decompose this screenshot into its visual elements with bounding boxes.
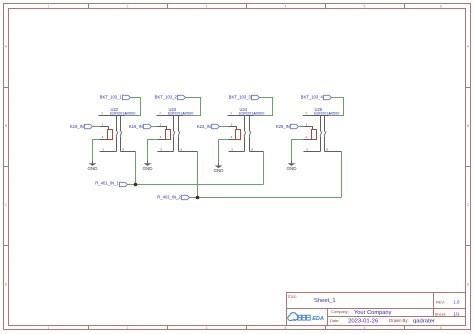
relay U22 EDR201A0500 bbox=[99, 107, 136, 152]
wire relay U23 pin 4 to GND bbox=[148, 140, 158, 162]
svg-text:3: 3 bbox=[231, 148, 233, 152]
wire relay U24 pin 8 down to net R_401_IN bbox=[263, 152, 265, 185]
svg-text:BKT_103_4: BKT_103_4 bbox=[301, 94, 324, 99]
svg-text:1.0: 1.0 bbox=[453, 300, 460, 305]
frame zone numbers top bbox=[48, 4, 443, 8]
svg-text:8: 8 bbox=[326, 148, 328, 152]
svg-text:Sheet_1: Sheet_1 bbox=[314, 298, 336, 304]
svg-text:1/1: 1/1 bbox=[453, 311, 460, 316]
net label BKT_103_2 bbox=[155, 94, 186, 99]
svg-text:D: D bbox=[467, 282, 470, 286]
svg-text:EDR201A0500: EDR201A0500 bbox=[239, 111, 264, 115]
junction on R_401_IN_1 at relay U22 bbox=[134, 183, 138, 187]
net label BKT_103_3 bbox=[229, 94, 260, 99]
wire from BKT_103_1 to relay pin 8 top bbox=[125, 98, 141, 116]
svg-text:BKT_103_3: BKT_103_3 bbox=[229, 94, 252, 99]
svg-text:GND: GND bbox=[143, 166, 154, 171]
svg-text:Date:: Date: bbox=[330, 318, 339, 323]
ground GND1 bbox=[88, 161, 99, 171]
svg-text:3: 3 bbox=[206, 4, 208, 8]
relay U23 EDR201A0500 bbox=[157, 107, 198, 152]
wire net R_401_IN_2 bbox=[190, 197, 342, 199]
net label K19_IN bbox=[70, 124, 93, 129]
logo text 嘉立创EDA bbox=[298, 315, 324, 322]
wire relay U25 pin 8 down to net R_401_IN bbox=[341, 152, 343, 198]
svg-text:BKT_103_1: BKT_103_1 bbox=[100, 94, 123, 99]
net label BKT_103_1 bbox=[100, 94, 131, 99]
svg-text:4: 4 bbox=[160, 135, 162, 139]
svg-text:1: 1 bbox=[48, 4, 50, 8]
svg-text:2: 2 bbox=[127, 4, 129, 8]
svg-text:K19_IN: K19_IN bbox=[70, 124, 84, 129]
svg-text:EDA: EDA bbox=[312, 316, 324, 322]
svg-text:K16_IN: K16_IN bbox=[129, 124, 143, 129]
logo cloud icon bbox=[288, 313, 299, 321]
svg-text:B: B bbox=[467, 124, 470, 128]
svg-text:D: D bbox=[5, 282, 8, 286]
net label K22_IN bbox=[197, 124, 220, 129]
frame zone letters right bbox=[467, 45, 470, 287]
svg-text:REV:: REV: bbox=[436, 300, 445, 305]
wire from K19_IN to relay pin 2 bbox=[93, 126, 100, 128]
svg-text:R_401_IN_1: R_401_IN_1 bbox=[95, 181, 119, 186]
svg-text:1: 1 bbox=[48, 326, 50, 330]
svg-text:1: 1 bbox=[159, 111, 161, 115]
net label R_401_IN_1 bbox=[95, 181, 127, 187]
svg-text:3: 3 bbox=[206, 326, 208, 330]
svg-text:3: 3 bbox=[102, 148, 104, 152]
svg-text:Company:: Company: bbox=[331, 309, 349, 314]
svg-text:EDR201A0500: EDR201A0500 bbox=[110, 111, 135, 115]
svg-text:A: A bbox=[467, 45, 470, 49]
svg-text:R_401_IN_2: R_401_IN_2 bbox=[157, 195, 181, 200]
svg-text:8: 8 bbox=[122, 148, 124, 152]
svg-text:GND: GND bbox=[88, 166, 99, 171]
svg-text:A: A bbox=[5, 45, 8, 49]
wire from K25_IN to relay pin 2 bbox=[299, 126, 304, 128]
svg-text:B: B bbox=[5, 124, 8, 128]
wire relay U24 pin 4 to GND bbox=[219, 140, 229, 164]
net label K25_IN bbox=[276, 124, 299, 129]
relay U24 EDR201A0500 bbox=[228, 107, 265, 152]
relay U25 EDR201A0500 bbox=[303, 107, 342, 152]
svg-text:C: C bbox=[5, 203, 8, 207]
svg-text:1: 1 bbox=[230, 111, 232, 115]
frame zone letters left bbox=[5, 45, 8, 287]
svg-text:K22_IN: K22_IN bbox=[197, 124, 211, 129]
svg-text:4: 4 bbox=[231, 135, 233, 139]
junction on R_401_IN_2 at relay U23 bbox=[196, 196, 200, 200]
svg-text:8: 8 bbox=[180, 148, 182, 152]
wire relay U23 pin 8 down to net R_401_IN bbox=[197, 152, 199, 198]
svg-text:1: 1 bbox=[305, 111, 307, 115]
svg-text:GND: GND bbox=[214, 168, 225, 173]
frame zone numbers bottom bbox=[48, 326, 443, 330]
svg-text:GND: GND bbox=[287, 166, 298, 171]
wire from BKT_103_4 to relay pin 8 top bbox=[329, 98, 344, 116]
svg-text:2: 2 bbox=[127, 326, 129, 330]
svg-text:K25_IN: K25_IN bbox=[276, 124, 290, 129]
ground GND2 bbox=[143, 161, 154, 171]
wire from BKT_103_2 to relay pin 8 top bbox=[183, 98, 201, 116]
wire from BKT_103_3 to relay pin 8 top bbox=[254, 98, 273, 116]
net label K16_IN bbox=[129, 124, 152, 129]
ground GND4 bbox=[287, 161, 298, 171]
svg-text:4: 4 bbox=[102, 135, 104, 139]
svg-text:5: 5 bbox=[364, 4, 366, 8]
svg-text:4: 4 bbox=[306, 135, 308, 139]
svg-text:1: 1 bbox=[101, 111, 103, 115]
svg-text:Your Company: Your Company bbox=[354, 310, 392, 316]
ground GND3 bbox=[214, 163, 225, 173]
svg-text:qadrater: qadrater bbox=[413, 318, 435, 324]
svg-text:5: 5 bbox=[364, 326, 366, 330]
net label R_401_IN_2 bbox=[157, 195, 189, 200]
wire relay U22 pin 4 to GND bbox=[93, 140, 100, 162]
svg-text:BKT_103_2: BKT_103_2 bbox=[155, 94, 178, 99]
svg-text:2023-01-26: 2023-01-26 bbox=[348, 318, 379, 324]
net label BKT_103_4 bbox=[301, 94, 332, 99]
svg-text:Sheet:: Sheet: bbox=[435, 311, 446, 316]
svg-text:6: 6 bbox=[440, 4, 442, 8]
svg-text:3: 3 bbox=[160, 148, 162, 152]
svg-text:8: 8 bbox=[251, 148, 253, 152]
wire net R_401_IN_1 bbox=[128, 184, 264, 186]
wire from K16_IN to relay pin 2 bbox=[152, 126, 158, 128]
svg-text:4: 4 bbox=[285, 326, 287, 330]
svg-text:3: 3 bbox=[306, 148, 308, 152]
svg-text:TITLE:: TITLE: bbox=[288, 295, 297, 299]
svg-text:C: C bbox=[467, 203, 470, 207]
svg-text:6: 6 bbox=[440, 326, 442, 330]
svg-text:EDR201A0500: EDR201A0500 bbox=[168, 111, 193, 115]
svg-text:EDR201A0500: EDR201A0500 bbox=[314, 111, 339, 115]
wire relay U25 pin 4 to GND bbox=[292, 140, 304, 162]
svg-text:4: 4 bbox=[285, 4, 287, 8]
wire relay U22 pin 8 down to net R_401_IN bbox=[135, 152, 137, 185]
title block outline bbox=[287, 293, 466, 326]
svg-text:Drawn By:: Drawn By: bbox=[389, 318, 408, 323]
wire from K22_IN to relay pin 2 bbox=[220, 126, 229, 128]
